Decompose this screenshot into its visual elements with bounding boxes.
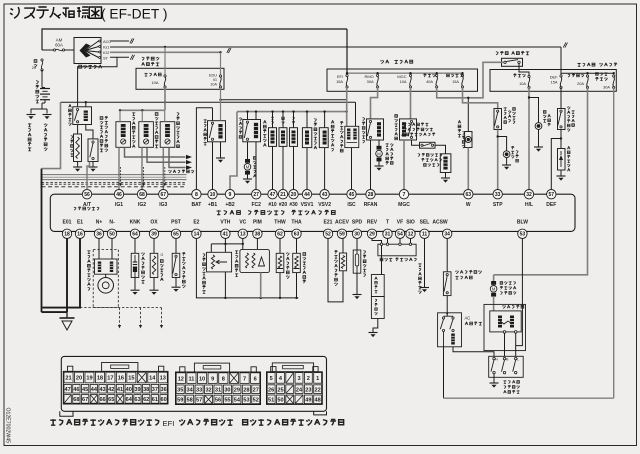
wire ACSW to pressure switch xyxy=(446,239,448,272)
ground body earth xyxy=(43,114,52,116)
svg-text:SIO: SIO xyxy=(406,220,415,226)
svg-text:PST: PST xyxy=(171,220,181,226)
svg-text:( EF-DET ): ( EF-DET ) xyxy=(101,7,167,22)
fuse DEF 15A xyxy=(560,75,562,77)
wire IG2 to EDU fuse xyxy=(110,51,221,53)
ground tail lamp xyxy=(534,146,543,148)
intake air temp sensor xyxy=(296,239,298,254)
wire starter relay to line A xyxy=(85,102,87,107)
svg-text:59: 59 xyxy=(339,232,345,238)
svg-text:EDU: EDU xyxy=(209,74,217,78)
fuse block 2 box xyxy=(490,70,616,92)
starter relay xyxy=(73,107,92,125)
svg-text:PIM: PIM xyxy=(253,220,262,226)
svg-text:28: 28 xyxy=(243,387,249,393)
svg-text:VF: VF xyxy=(397,220,403,226)
svg-text:11: 11 xyxy=(188,376,194,382)
svg-text:E1: E1 xyxy=(77,220,83,226)
svg-text:40: 40 xyxy=(126,387,132,393)
ground stop lamp xyxy=(502,164,511,166)
ECU terminal row 1 xyxy=(82,190,91,199)
VSV2 A/C idle-up valve xyxy=(319,128,328,148)
defogger heater element xyxy=(560,139,562,149)
heater blower switch xyxy=(489,356,524,377)
svg-text:M: M xyxy=(492,287,496,292)
svg-text:10A: 10A xyxy=(210,83,217,87)
defogger switch xyxy=(560,88,562,109)
harness band dashed lines xyxy=(42,181,187,183)
svg-text:68: 68 xyxy=(73,397,79,403)
water temp sensor xyxy=(279,239,281,254)
svg-text:IG3: IG3 xyxy=(159,202,167,208)
svg-text:51: 51 xyxy=(268,398,274,404)
ground shift position switch xyxy=(89,166,98,168)
svg-text:2: 2 xyxy=(307,376,310,382)
injector #10 xyxy=(269,128,277,147)
svg-text:H/L: H/L xyxy=(525,202,533,208)
svg-text:56: 56 xyxy=(84,192,90,198)
wire RMO fuse to fan relay xyxy=(371,87,378,119)
fuse RMO 30A xyxy=(377,74,379,76)
svg-text:62: 62 xyxy=(143,397,149,403)
wire GAUGE BACK fuse down right side xyxy=(613,88,615,399)
svg-text:67: 67 xyxy=(82,397,88,403)
wire IG1 into DEF fuse xyxy=(560,47,562,75)
fuse block 1 box xyxy=(136,68,224,89)
svg-text:8: 8 xyxy=(222,376,225,382)
fuse TAIL 10A xyxy=(528,75,530,77)
stop lamp switch xyxy=(494,109,502,130)
ground heater blower switch xyxy=(490,382,499,384)
svg-text:IG: IG xyxy=(213,78,217,82)
svg-text:DEF: DEF xyxy=(546,202,556,208)
svg-text:#10: #10 xyxy=(268,202,277,208)
fuse TAIL 40A xyxy=(436,74,438,76)
svg-text:ACSW: ACSW xyxy=(432,220,448,226)
svg-text:O12E7002W45: O12E7002W45 xyxy=(5,408,11,444)
svg-text:N-: N- xyxy=(109,220,115,226)
svg-text:OX: OX xyxy=(150,220,158,226)
svg-text:9: 9 xyxy=(229,192,232,198)
wire TAIL fuse to H/L terminal xyxy=(528,88,530,191)
wire ignition coil feed bus xyxy=(164,87,166,110)
svg-text:20: 20 xyxy=(291,192,297,198)
svg-text:12: 12 xyxy=(178,376,184,382)
svg-text:17: 17 xyxy=(107,376,113,382)
svg-text:43: 43 xyxy=(322,192,328,198)
svg-text:BAT: BAT xyxy=(191,202,201,208)
wire SEL to ground (M/T only) xyxy=(424,239,426,288)
wire MGC fuse to magnet clutch relay xyxy=(410,87,412,119)
svg-text:BLW: BLW xyxy=(517,220,528,226)
svg-text:44: 44 xyxy=(91,387,98,393)
wire BAT riser xyxy=(196,108,212,190)
tail lamp xyxy=(529,98,539,123)
svg-text:31: 31 xyxy=(385,232,391,238)
wire harness collector join to main ground xyxy=(42,311,68,313)
svg-text:15A: 15A xyxy=(336,79,343,84)
wire BLW terminal to blower switch xyxy=(516,239,523,357)
ECU connector B pinout xyxy=(180,367,185,372)
svg-text:L: L xyxy=(517,358,519,362)
ECU connector A pinout xyxy=(68,366,73,371)
wire IG1 to fuse block 2 xyxy=(110,46,561,48)
svg-text:46: 46 xyxy=(73,387,79,393)
svg-text:18: 18 xyxy=(97,376,103,382)
svg-text:60A: 60A xyxy=(55,43,63,48)
svg-text:SPD: SPD xyxy=(352,220,363,226)
svg-text:11: 11 xyxy=(422,232,428,238)
tail switch xyxy=(502,58,523,66)
injector label xyxy=(263,120,266,123)
svg-text:59: 59 xyxy=(177,398,183,404)
svg-text:46: 46 xyxy=(116,192,122,198)
svg-text:21: 21 xyxy=(65,376,71,382)
svg-text:19: 19 xyxy=(86,376,92,382)
main ground point xyxy=(66,312,68,318)
ground engine earth xyxy=(27,114,36,116)
svg-text:15A: 15A xyxy=(452,79,459,84)
svg-text:49: 49 xyxy=(305,398,311,404)
svg-text:63: 63 xyxy=(294,232,300,238)
fuse STOP 15A xyxy=(461,74,463,76)
stop lamp xyxy=(498,137,507,151)
svg-text:O: O xyxy=(161,253,164,257)
ECU engine control computer box xyxy=(50,194,575,231)
relay block bus xyxy=(347,72,463,74)
fuel pump relay xyxy=(243,120,261,142)
svg-text:3: 3 xyxy=(297,376,300,382)
svg-text:64: 64 xyxy=(126,397,133,403)
svg-text:30A: 30A xyxy=(367,79,374,84)
wire F/P relay coil to FC2 xyxy=(255,142,257,190)
svg-text:66: 66 xyxy=(99,397,105,403)
svg-text:26: 26 xyxy=(268,387,274,393)
svg-text:IG2: IG2 xyxy=(103,50,109,55)
ground knock sensor xyxy=(131,289,140,291)
wire line A (IG feed) xyxy=(61,101,356,103)
wire IG2 signal to ECU xyxy=(141,147,143,190)
shield drain dashed bus xyxy=(80,307,162,309)
svg-text:55: 55 xyxy=(224,398,230,404)
svg-text:ACEV: ACEV xyxy=(335,220,350,226)
fuse GAUGE BACK 30A xyxy=(613,75,615,77)
svg-text:47: 47 xyxy=(270,192,276,198)
svg-text:45: 45 xyxy=(82,387,88,393)
wire relay to MGC terminal xyxy=(403,140,405,190)
svg-text:REV: REV xyxy=(367,220,378,226)
magnet clutch relay xyxy=(400,119,417,140)
svg-text:27: 27 xyxy=(253,192,259,198)
pressure sensor (MAP) xyxy=(242,239,244,250)
svg-text:VC: VC xyxy=(239,220,246,226)
+B bus from EFI fuse xyxy=(237,111,347,113)
svg-text:5: 5 xyxy=(270,376,273,382)
ignition coil 2 xyxy=(139,122,154,148)
connector pinout outer frame xyxy=(61,356,326,411)
ground meters xyxy=(369,332,378,334)
svg-text:16: 16 xyxy=(77,232,83,238)
wire E01 ground drop xyxy=(66,239,68,313)
svg-text:#20: #20 xyxy=(279,202,288,208)
svg-text:15: 15 xyxy=(128,376,134,382)
svg-text:32: 32 xyxy=(526,192,532,198)
svg-text:63: 63 xyxy=(466,192,472,198)
svg-text:13: 13 xyxy=(160,376,166,382)
svg-text:61: 61 xyxy=(152,397,158,403)
wire A/C switch to bottom bus xyxy=(443,347,445,398)
wire N+ to sensor xyxy=(98,239,100,260)
svg-text:10A: 10A xyxy=(151,80,158,85)
ground magnet clutch xyxy=(441,177,450,179)
fuse HEATER 20A xyxy=(586,75,588,77)
svg-text:30: 30 xyxy=(224,387,230,393)
svg-text:20: 20 xyxy=(76,376,82,382)
wire line A elbow down to harness xyxy=(42,102,61,168)
svg-text:50: 50 xyxy=(109,232,115,238)
svg-text:VSV1: VSV1 xyxy=(301,202,314,208)
svg-text:34: 34 xyxy=(187,387,194,393)
wire diag lamp to W terminal xyxy=(467,148,469,191)
svg-text:T: T xyxy=(386,220,389,226)
svg-text:38: 38 xyxy=(255,232,261,238)
svg-text:THW: THW xyxy=(274,220,286,226)
starter motor xyxy=(77,125,79,135)
ground fuel pump xyxy=(243,178,252,180)
svg-text:38: 38 xyxy=(143,387,149,393)
svg-text:36: 36 xyxy=(161,387,167,393)
svg-text:32: 32 xyxy=(205,387,211,393)
svg-text:14: 14 xyxy=(149,376,156,382)
svg-text:31: 31 xyxy=(215,387,221,393)
svg-text:50: 50 xyxy=(277,398,283,404)
svg-text:16: 16 xyxy=(118,376,124,382)
svg-text:53: 53 xyxy=(520,232,526,238)
svg-text:34: 34 xyxy=(444,232,450,238)
wire resistor taps to blower switch xyxy=(504,333,506,356)
wire coil1 feed xyxy=(119,110,121,121)
svg-text:10: 10 xyxy=(210,192,216,198)
A/C switch xyxy=(438,313,462,347)
svg-text:8: 8 xyxy=(195,192,198,198)
wire ST to starter relay xyxy=(78,57,117,107)
shield drain stubs xyxy=(120,167,122,183)
svg-text:28: 28 xyxy=(368,192,374,198)
wire main relay coil to ground xyxy=(220,142,222,158)
svg-text:RFAN: RFAN xyxy=(364,202,378,208)
diag lamp (check engine) xyxy=(467,98,469,132)
svg-text:21: 21 xyxy=(280,192,286,198)
svg-text:KNK: KNK xyxy=(130,220,141,226)
svg-text:M: M xyxy=(246,165,250,170)
svg-text:1: 1 xyxy=(316,376,319,382)
wire E2 sensor return line xyxy=(196,239,298,298)
svg-text:IG1: IG1 xyxy=(115,202,123,208)
svg-text:62: 62 xyxy=(277,232,283,238)
wire pressure switch to A/C switch xyxy=(446,296,448,313)
wire N- to sensor xyxy=(111,239,113,260)
fuse EDU IG 10A xyxy=(220,52,222,75)
wire EFI fuse output to ISC xyxy=(346,87,348,126)
radiator fan motor xyxy=(378,140,380,146)
svg-text:35: 35 xyxy=(177,387,183,393)
engine speed sensor xyxy=(95,259,118,274)
ground radiator fan motor xyxy=(375,165,384,167)
svg-text:E01: E01 xyxy=(63,220,72,226)
wire stop switch to STP xyxy=(497,130,499,191)
svg-text:20A: 20A xyxy=(577,81,584,86)
O2 sensor xyxy=(153,239,155,254)
svg-text:53: 53 xyxy=(243,398,249,404)
rotary ISC valve xyxy=(345,126,359,147)
svg-text:VTH: VTH xyxy=(220,220,230,226)
speedometer xyxy=(371,297,384,319)
wire line B (+B feed) xyxy=(221,99,347,101)
svg-text:9: 9 xyxy=(211,376,214,382)
svg-text:10A: 10A xyxy=(519,81,526,86)
wire ISC to ECU terminal 45 xyxy=(351,148,353,190)
wire A/T terminal to shift switch xyxy=(87,162,90,190)
wire main relay to +B1 xyxy=(212,142,214,190)
svg-text:67: 67 xyxy=(161,192,167,198)
svg-text:41: 41 xyxy=(117,387,123,393)
radiator fan relay xyxy=(367,119,384,140)
svg-text:39: 39 xyxy=(134,387,140,393)
A/C pressure sensor xyxy=(328,239,343,302)
fuse block 2 bus xyxy=(561,72,614,74)
ECU name label xyxy=(217,210,221,214)
svg-text:54: 54 xyxy=(234,398,241,404)
ECU connector C pinout xyxy=(271,367,276,372)
svg-text:ISC: ISC xyxy=(347,202,356,208)
wire rail drop to relay block xyxy=(346,29,348,73)
svg-text:AC: AC xyxy=(465,316,471,321)
ground O2 sensor xyxy=(150,289,159,291)
svg-text:MGC: MGC xyxy=(398,202,410,208)
wire IG3 signal to ECU xyxy=(162,147,164,190)
ground main relay xyxy=(216,157,225,159)
fuse ENGINE 10A xyxy=(164,47,166,75)
svg-text:33: 33 xyxy=(495,192,501,198)
VSV1 boost control valve xyxy=(302,128,311,148)
wire defogger switch junction to DEF terminal xyxy=(560,130,562,139)
title: system wiring diagram (EF-DET) xyxy=(10,7,19,18)
bottom bus to gauge-back fuse xyxy=(444,397,614,399)
wire MAP sensor ground xyxy=(260,273,262,298)
svg-text:25: 25 xyxy=(277,387,283,393)
svg-text:48: 48 xyxy=(315,398,321,404)
main relay xyxy=(212,108,214,121)
svg-text:M: M xyxy=(377,151,381,156)
wire HEATER fuse to blower motor xyxy=(494,88,588,275)
fuel pump motor xyxy=(247,142,249,160)
svg-text:47: 47 xyxy=(65,387,71,393)
svg-text:45: 45 xyxy=(349,192,355,198)
blower resistor outer box xyxy=(484,304,526,350)
wire EDU fuse to main relay coil xyxy=(220,87,222,121)
ground defogger xyxy=(557,175,566,177)
svg-text:65: 65 xyxy=(108,397,114,403)
svg-text:44: 44 xyxy=(304,192,310,198)
svg-text:#30: #30 xyxy=(289,202,298,208)
wire fan relay to RFAN xyxy=(370,140,372,190)
wire ST xyxy=(110,56,129,58)
svg-text:12: 12 xyxy=(408,232,414,238)
svg-text:42: 42 xyxy=(108,387,114,393)
shift position switch (A/T only) xyxy=(86,125,93,139)
svg-text:30A: 30A xyxy=(603,85,610,90)
svg-text:52: 52 xyxy=(325,232,331,238)
wire battery negative to grounds xyxy=(31,103,42,114)
wire coil3 feed xyxy=(164,110,166,121)
svg-text:56: 56 xyxy=(215,398,221,404)
power steering oil pressure switch xyxy=(175,239,177,254)
svg-text:64: 64 xyxy=(132,232,138,238)
wire A/C switch to blower switch H xyxy=(453,347,494,357)
ignition coil 3 xyxy=(160,122,175,148)
fuse EFI 15A xyxy=(346,74,348,76)
wire REV to tachometer and check connector xyxy=(372,239,382,275)
svg-text:68: 68 xyxy=(139,192,145,198)
svg-text:FC2: FC2 xyxy=(251,202,261,208)
svg-text:10A: 10A xyxy=(400,79,407,84)
svg-text:60: 60 xyxy=(161,397,167,403)
harness band solid lines xyxy=(42,174,187,176)
fuse AM 60A xyxy=(42,49,53,51)
arrows to spark plugs xyxy=(186,155,192,159)
svg-text:M: M xyxy=(506,358,509,362)
svg-text:39: 39 xyxy=(151,232,157,238)
throttle sensor xyxy=(224,239,226,244)
svg-text:29: 29 xyxy=(369,232,375,238)
svg-text:43: 43 xyxy=(99,387,105,393)
compressor magnet clutch xyxy=(435,145,446,154)
wire tail switch feed from TAIL 40A xyxy=(437,62,504,98)
key switch SW1 xyxy=(74,38,101,64)
fusible link xyxy=(41,59,43,61)
svg-text:20: 20 xyxy=(32,66,36,70)
svg-text:22: 22 xyxy=(315,387,321,393)
svg-text:10: 10 xyxy=(199,376,205,382)
svg-text:15A: 15A xyxy=(551,80,558,85)
A/C pressure switch xyxy=(443,272,451,296)
svg-text:7: 7 xyxy=(403,192,406,198)
svg-text:IG2: IG2 xyxy=(138,202,146,208)
wire +B bus to +B2 xyxy=(230,112,237,190)
wire IG1 signal to ECU xyxy=(118,147,120,190)
battery BT1 xyxy=(41,70,43,88)
svg-text:37: 37 xyxy=(152,387,158,393)
svg-text:E21: E21 xyxy=(324,220,333,226)
svg-text:29: 29 xyxy=(234,387,240,393)
tachometer xyxy=(371,275,384,297)
bottom caption text xyxy=(50,419,56,425)
injector #20 xyxy=(279,128,287,147)
ignition coil 1 xyxy=(116,122,131,148)
wire E1 ground drop xyxy=(42,239,80,308)
wire spark plug leads xyxy=(125,147,186,157)
svg-text:27: 27 xyxy=(253,387,259,393)
engine speed sensor shield (dashed) xyxy=(93,250,118,308)
svg-text:W: W xyxy=(466,202,471,208)
svg-text:54: 54 xyxy=(397,232,403,238)
wire coil2 feed xyxy=(141,110,143,121)
svg-text:65: 65 xyxy=(173,232,179,238)
svg-text:23: 23 xyxy=(305,387,311,393)
svg-text:+B2: +B2 xyxy=(225,202,235,208)
wire line A end into ISC xyxy=(355,102,357,126)
svg-text:33: 33 xyxy=(196,387,202,393)
